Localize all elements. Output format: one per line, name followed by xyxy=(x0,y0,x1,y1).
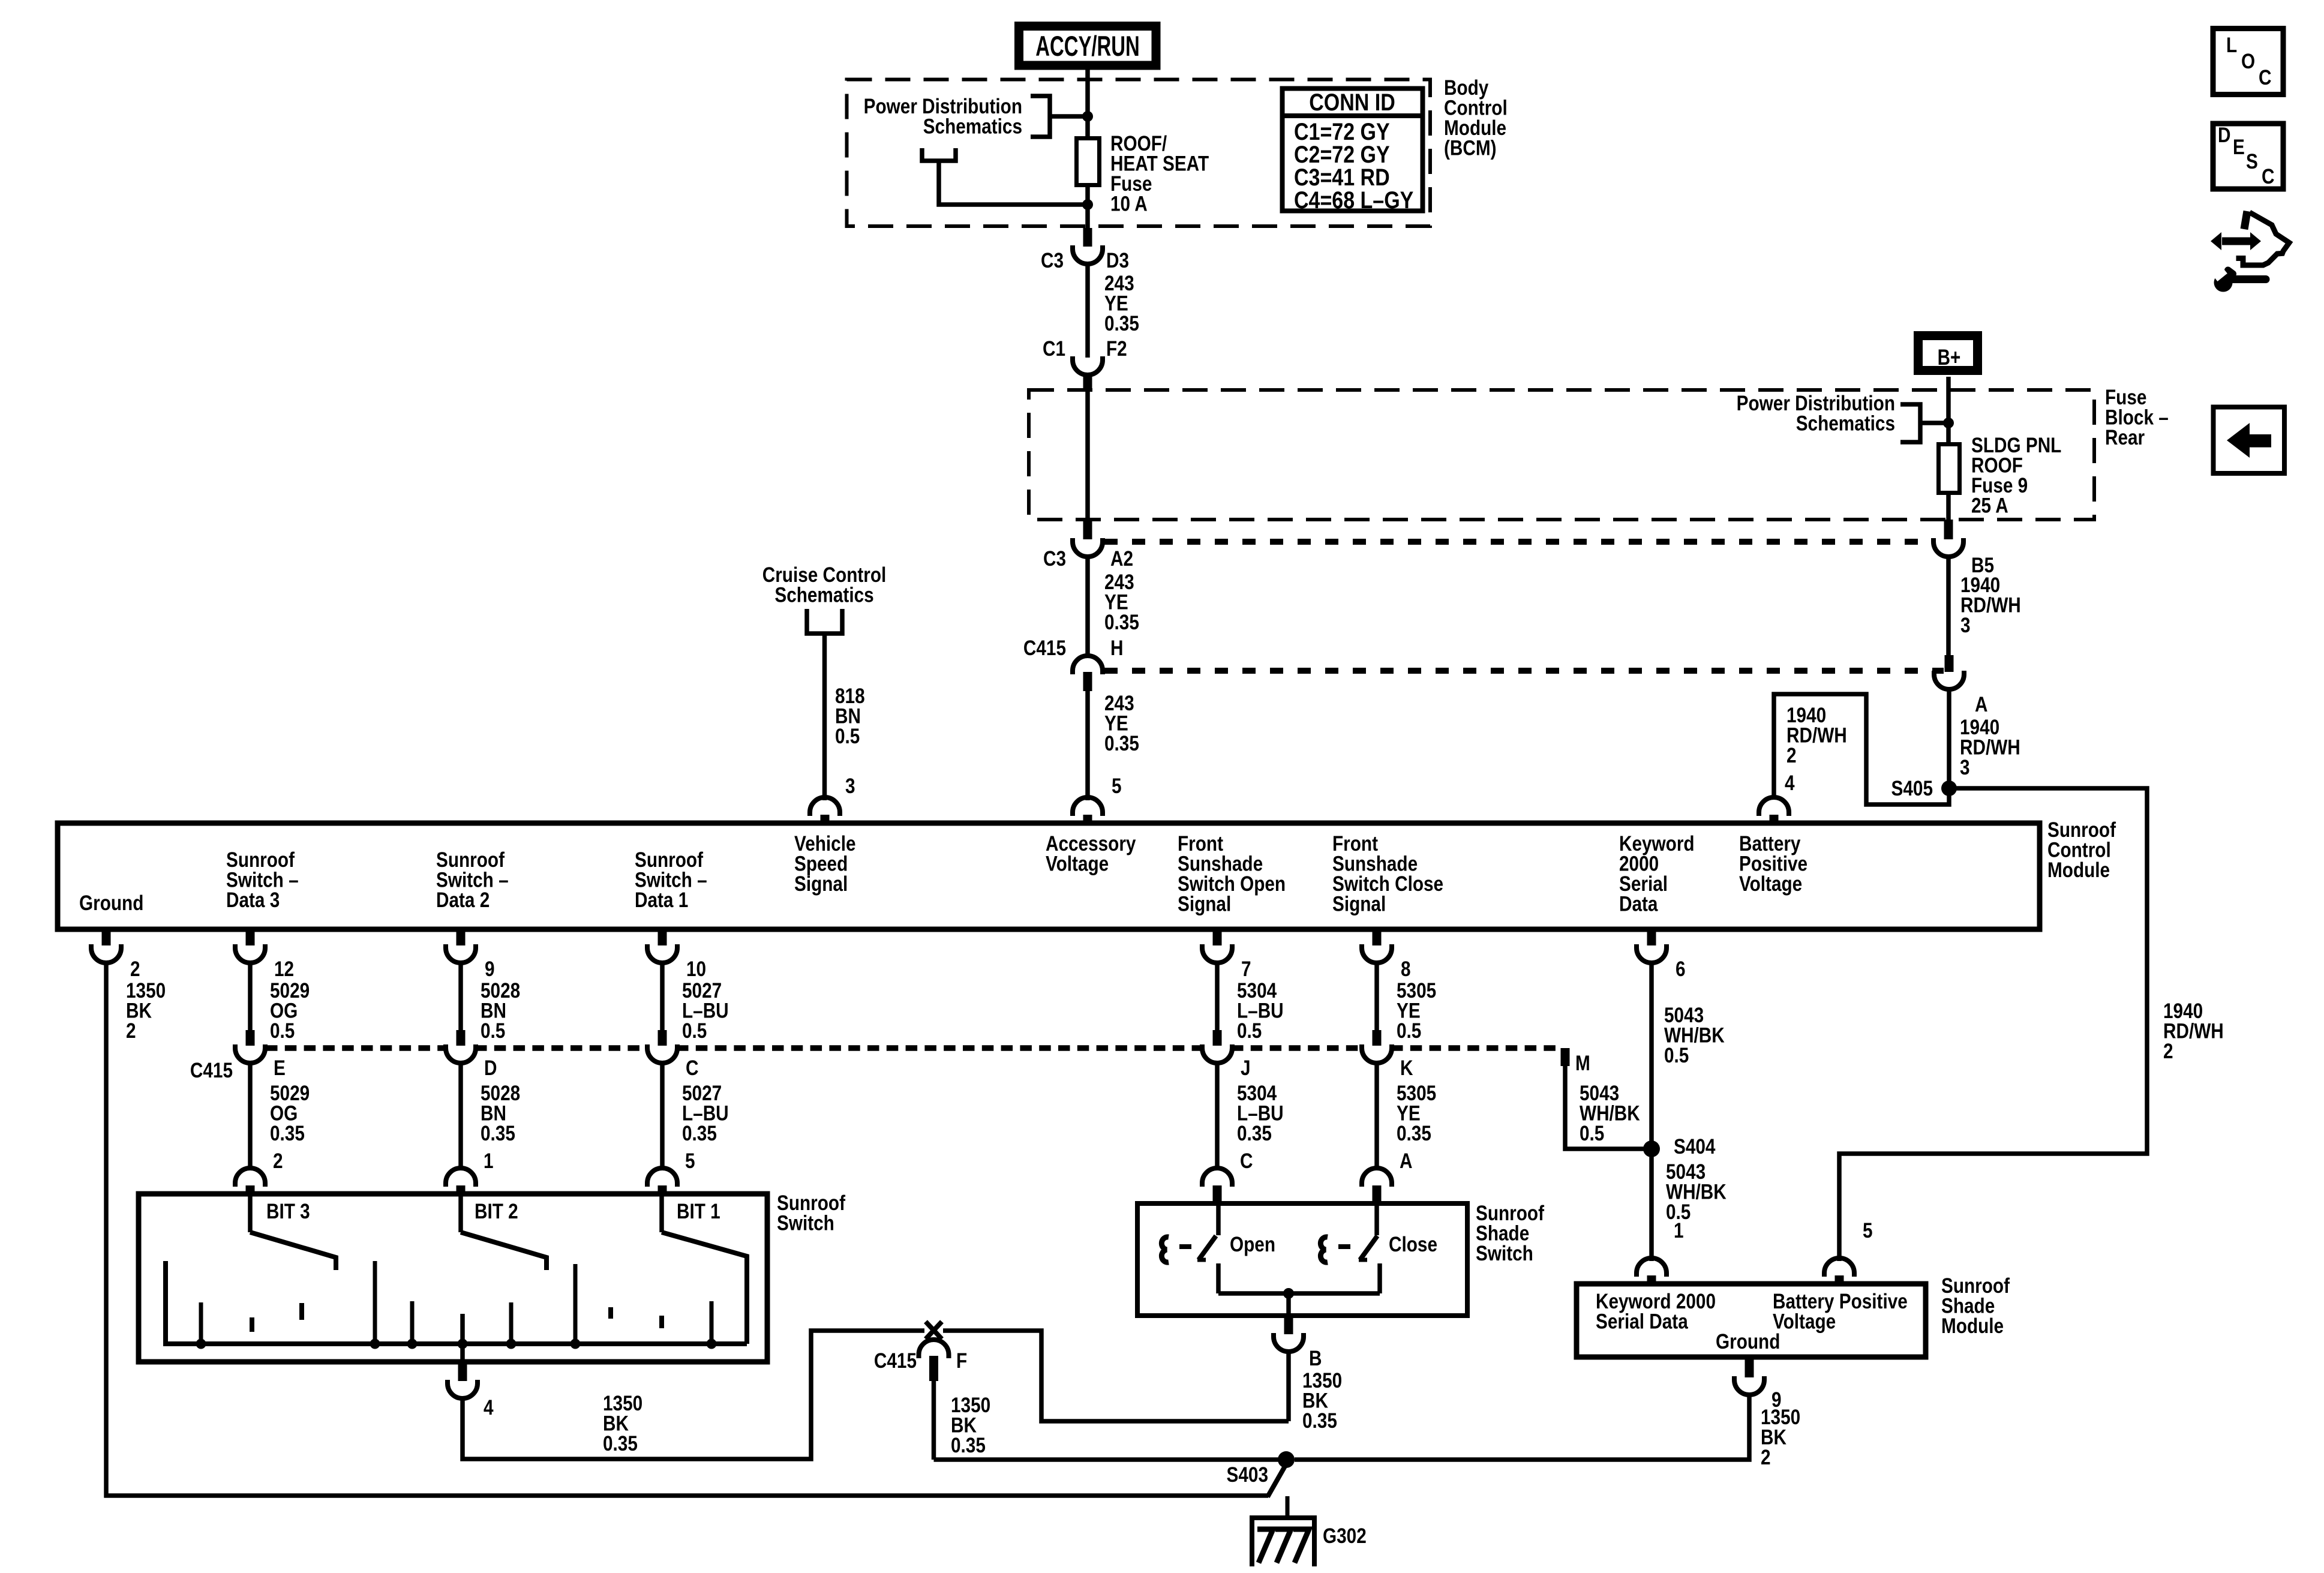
svg-text:D3: D3 xyxy=(1106,249,1129,272)
connector C415 pin C xyxy=(647,1044,677,1063)
svg-text:10 A: 10 A xyxy=(1110,192,1148,215)
svg-text:ACCY/RUN: ACCY/RUN xyxy=(1035,30,1140,62)
svg-text:S405: S405 xyxy=(1891,777,1933,800)
svg-text:S404: S404 xyxy=(1674,1135,1715,1158)
switch blade BIT 2 xyxy=(461,1232,547,1270)
power feed ACCY/RUN box xyxy=(1019,26,1157,66)
svg-text:A: A xyxy=(1400,1149,1412,1173)
connector C415 pin E stub xyxy=(246,1030,255,1046)
connector A xyxy=(1934,671,1964,689)
switch contact tick xyxy=(509,1302,514,1344)
svg-text:BIT 2: BIT 2 xyxy=(475,1200,518,1223)
svg-text:J: J xyxy=(1241,1056,1251,1080)
pin 2 stub (ground) xyxy=(102,930,111,945)
svg-text:0.35: 0.35 xyxy=(682,1122,717,1145)
pin 3 stub xyxy=(821,815,830,825)
svg-text:S403: S403 xyxy=(1227,1463,1268,1487)
wire to shade switch xyxy=(1374,1062,1379,1169)
connector pin 7 (open signal) xyxy=(1202,944,1232,963)
wire bracket to below fuse xyxy=(939,161,1088,205)
svg-text:Voltage: Voltage xyxy=(1739,872,1802,896)
connector pin 8 (close signal) xyxy=(1362,944,1392,963)
module box BCM (dashed) xyxy=(847,80,1431,227)
contact junction xyxy=(370,1339,380,1349)
svg-text:8: 8 xyxy=(1401,957,1411,981)
wire bit3 pivot xyxy=(248,1196,253,1232)
svg-text:Data 1: Data 1 xyxy=(635,888,688,912)
splice S403 xyxy=(1278,1451,1295,1468)
svg-text:5: 5 xyxy=(685,1149,695,1173)
wire B+ to fuse 9 xyxy=(1946,377,1951,520)
connector into sunroof switch xyxy=(647,1168,677,1187)
wire 818 to pin 3 xyxy=(822,634,827,800)
svg-text:G302: G302 xyxy=(1323,1524,1367,1548)
open contact xyxy=(1216,1263,1221,1293)
module box sunroof shade module xyxy=(1577,1284,1926,1357)
wire S403 branch diagonal xyxy=(1268,1462,1287,1497)
svg-text:5: 5 xyxy=(1863,1219,1873,1242)
stub into sunroof switch xyxy=(658,1185,667,1196)
connector pin 3 xyxy=(810,797,840,816)
wire to sunroof switch xyxy=(660,1062,665,1169)
connector C415 pin C stub xyxy=(658,1030,667,1046)
svg-text:A2: A2 xyxy=(1110,547,1133,571)
wire to C415 row xyxy=(1215,963,1220,1030)
wire A to S405 xyxy=(1947,690,1951,788)
pin 7 stub (open signal) xyxy=(1213,930,1222,945)
svg-text:0.35: 0.35 xyxy=(951,1434,986,1457)
connector shade module pin 5 xyxy=(1824,1258,1854,1277)
svg-text:BIT 3: BIT 3 xyxy=(266,1200,310,1223)
connector into sunroof switch xyxy=(235,1168,265,1187)
svg-text:6: 6 xyxy=(1676,957,1686,981)
wire M to S404 xyxy=(1565,1066,1652,1149)
svg-text:0.5: 0.5 xyxy=(682,1019,707,1043)
svg-text:4: 4 xyxy=(1785,772,1795,795)
svg-text:0.35: 0.35 xyxy=(1104,732,1139,755)
svg-text:C415: C415 xyxy=(874,1349,917,1373)
svg-text:4: 4 xyxy=(484,1396,494,1419)
svg-text:Rear: Rear xyxy=(2105,426,2145,449)
wire F to S403 xyxy=(932,1381,936,1460)
svg-text:2: 2 xyxy=(126,1019,136,1043)
contact junction xyxy=(196,1339,206,1349)
wire A2 to H xyxy=(1085,556,1090,658)
svg-text:C4=68 L–GY: C4=68 L–GY xyxy=(1294,186,1414,213)
wire ACCY/RUN to fuse xyxy=(1085,68,1090,228)
contact junction xyxy=(707,1339,717,1349)
pin 5 stub xyxy=(1083,815,1092,825)
pin 10 stub (data 1) xyxy=(658,930,667,945)
svg-text:0.35: 0.35 xyxy=(1104,611,1139,634)
stub into shade switch xyxy=(1213,1185,1222,1206)
wire to C415 row xyxy=(1374,963,1379,1030)
connector pin B xyxy=(1274,1333,1304,1352)
close contact xyxy=(1377,1263,1382,1293)
wire D3 to F2 xyxy=(1085,264,1090,358)
svg-text:12: 12 xyxy=(274,957,294,981)
svg-text:Module: Module xyxy=(2047,858,2110,882)
svg-text:Schematics: Schematics xyxy=(923,115,1022,138)
svg-text:E: E xyxy=(2233,136,2245,159)
bracket to power distribution (fuse block) xyxy=(1900,404,1920,442)
svg-text:K: K xyxy=(1400,1056,1413,1080)
wire S405 to pin 4 xyxy=(1774,694,1949,804)
connector C415 pin H xyxy=(1073,656,1103,674)
svg-text:2: 2 xyxy=(130,957,140,981)
connector shade module pin 1 xyxy=(1637,1258,1667,1277)
connector C1 pin F2 xyxy=(1073,356,1103,375)
svg-text:10: 10 xyxy=(686,957,706,981)
wire open pivot xyxy=(1216,1206,1221,1235)
connector C3 pin A2 stub xyxy=(1083,520,1092,539)
wire bit2 pivot xyxy=(458,1196,463,1232)
svg-text:Signal: Signal xyxy=(794,872,848,896)
dash close xyxy=(1338,1244,1350,1249)
pin 4 stub (sunroof switch) xyxy=(458,1364,467,1381)
wire shade common out xyxy=(1286,1293,1291,1316)
connector F crossing stroke 1 xyxy=(926,1322,942,1339)
svg-text:B+: B+ xyxy=(1938,346,1961,370)
junction shade common xyxy=(1283,1288,1294,1299)
connector C1 pin F2 stub xyxy=(1083,373,1092,390)
pin 8 stub (close signal) xyxy=(1373,930,1382,945)
wire 1350 pin4 to C415 F xyxy=(463,1331,924,1459)
switch contact tick xyxy=(410,1301,415,1344)
detent tick xyxy=(250,1317,254,1332)
svg-text:Open: Open xyxy=(1230,1233,1275,1256)
connector C415 pin E xyxy=(235,1044,265,1063)
wire to C415 row xyxy=(660,963,665,1030)
connector C415 pin J stub xyxy=(1213,1030,1222,1046)
fuse ROOF/HEAT SEAT 10A xyxy=(1077,139,1100,185)
connector pin 4 (sunroof switch) xyxy=(448,1380,478,1398)
svg-text:H: H xyxy=(1110,637,1123,660)
connector into sunroof switch xyxy=(446,1168,476,1187)
svg-text:C3: C3 xyxy=(1041,249,1064,272)
svg-text:3: 3 xyxy=(1960,614,1971,637)
wire to sunroof switch xyxy=(248,1062,253,1169)
wire F to shade switch B xyxy=(943,1331,1289,1421)
svg-text:CONN ID: CONN ID xyxy=(1309,88,1395,115)
contact junction xyxy=(506,1339,517,1349)
svg-text:Data: Data xyxy=(1619,892,1658,915)
connector C3 pin D3 xyxy=(1073,245,1103,264)
detent tick xyxy=(659,1316,664,1328)
svg-text:D: D xyxy=(2218,124,2230,147)
connector C415 pin F xyxy=(919,1340,949,1358)
wire to sunroof switch xyxy=(458,1062,463,1169)
connector into shade switch xyxy=(1202,1168,1232,1187)
switch blade close xyxy=(1360,1236,1377,1260)
svg-text:0.35: 0.35 xyxy=(1237,1122,1272,1145)
shade switch common bar xyxy=(1218,1291,1380,1296)
connector pin 6 xyxy=(1637,944,1667,963)
svg-text:Schematics: Schematics xyxy=(1796,412,1895,435)
svg-text:C3: C3 xyxy=(1043,547,1066,571)
blade foot close xyxy=(1359,1258,1367,1262)
wire to G302 xyxy=(1286,1496,1290,1517)
svg-text:E: E xyxy=(274,1056,286,1080)
connector C415 pin D stub xyxy=(457,1030,466,1046)
CONN ID table xyxy=(1283,89,1423,211)
wire B down xyxy=(1286,1351,1291,1421)
splice S405 xyxy=(1941,781,1957,796)
icon back-arrow box xyxy=(2214,407,2285,474)
connector C415 pin H stub xyxy=(1083,672,1092,691)
svg-text:(BCM): (BCM) xyxy=(1444,136,1497,160)
connector F stub xyxy=(929,1356,938,1381)
detent hook close xyxy=(1320,1237,1328,1262)
wire S405 to shade module pin 5 xyxy=(1839,788,2147,1261)
svg-text:0.35: 0.35 xyxy=(1302,1409,1337,1433)
wire F junction run xyxy=(934,1457,1287,1462)
switch contact tick xyxy=(710,1301,714,1344)
svg-text:Schematics: Schematics xyxy=(774,583,873,607)
svg-text:Data 3: Data 3 xyxy=(226,888,280,912)
svg-text:C: C xyxy=(1240,1149,1253,1173)
pin 9 stub xyxy=(1745,1359,1754,1377)
switch box sunroof switch xyxy=(139,1194,767,1362)
switch box sunroof shade switch xyxy=(1137,1203,1467,1316)
svg-text:7: 7 xyxy=(1241,957,1251,981)
stub into shade switch xyxy=(1373,1185,1382,1206)
svg-text:0.5: 0.5 xyxy=(1664,1044,1689,1067)
wire to C415 row xyxy=(248,963,253,1030)
connector C415 pin K xyxy=(1362,1044,1392,1063)
wire F2 through fuse block xyxy=(1085,390,1090,520)
stub into sunroof switch xyxy=(246,1185,255,1196)
svg-text:0.35: 0.35 xyxy=(481,1122,515,1145)
dotted connector line C3-B5 xyxy=(1104,539,1933,545)
connector line C415 (dashed) xyxy=(266,1045,446,1051)
connector pin 9 (data 2) xyxy=(446,944,476,963)
svg-text:Data 2: Data 2 xyxy=(436,888,490,912)
pin 12 stub (data 3) xyxy=(246,930,255,945)
icon LOC box xyxy=(2213,29,2283,95)
pin 1 stub xyxy=(1647,1275,1656,1286)
connector C3 pin A2 xyxy=(1073,538,1103,557)
svg-text:F: F xyxy=(956,1349,967,1373)
blade foot open xyxy=(1197,1258,1206,1262)
icon vehicle/diagnostic with double arrow and wrench xyxy=(2222,211,2289,265)
connector pin 4 xyxy=(1759,797,1789,816)
svg-text:0.35: 0.35 xyxy=(1104,312,1139,335)
connector C415 pin M stub xyxy=(1561,1048,1570,1066)
svg-text:2: 2 xyxy=(2163,1040,2173,1063)
fuse SLDG PNL ROOF Fuse 9 25A xyxy=(1939,445,1960,493)
switch blade open xyxy=(1199,1236,1216,1260)
svg-text:0.35: 0.35 xyxy=(270,1122,305,1145)
svg-text:C1: C1 xyxy=(1043,337,1065,361)
connector B5 stub xyxy=(1944,520,1953,539)
connector B5 xyxy=(1933,538,1963,557)
svg-text:Switch: Switch xyxy=(777,1211,834,1235)
pin 6 stub (serial data) xyxy=(1647,930,1656,945)
connector pin 10 (data 1) xyxy=(647,944,677,963)
svg-text:2: 2 xyxy=(1786,744,1797,767)
svg-text:C: C xyxy=(2259,66,2271,89)
bracket cruise control xyxy=(807,609,842,634)
connector pin 2 (ground) xyxy=(91,944,121,963)
junction below B+ xyxy=(1943,418,1954,428)
detent hook open xyxy=(1161,1237,1169,1262)
svg-text:M: M xyxy=(1575,1052,1590,1075)
svg-text:Close: Close xyxy=(1389,1233,1437,1256)
bracket lower (power distribution) xyxy=(922,148,956,161)
svg-text:Module: Module xyxy=(1941,1314,2004,1338)
svg-text:0.5: 0.5 xyxy=(1580,1122,1604,1145)
svg-text:1: 1 xyxy=(1674,1219,1684,1242)
wire 5043 pin6 to pin1 xyxy=(1649,963,1654,1261)
battery feed B+ box xyxy=(1918,336,1978,371)
connector C415 pin K stub xyxy=(1373,1030,1382,1046)
svg-text:3: 3 xyxy=(1960,756,1970,779)
connector into shade switch xyxy=(1362,1168,1392,1187)
wire bracket to fuse node xyxy=(1050,114,1088,119)
svg-text:C415: C415 xyxy=(190,1059,233,1082)
switch blade BIT 3 xyxy=(250,1232,336,1270)
bracket to power distribution (BCM) xyxy=(1031,96,1050,137)
wire ground bottom run xyxy=(104,1493,1269,1498)
svg-text:D: D xyxy=(484,1056,497,1080)
svg-text:O: O xyxy=(2241,50,2255,73)
svg-text:Signal: Signal xyxy=(1332,892,1386,915)
junction common bar xyxy=(458,1339,468,1349)
wire to C415 row xyxy=(458,963,463,1030)
switch contact tick xyxy=(199,1302,203,1344)
pin B stub xyxy=(1284,1317,1293,1334)
dotted connector line C415-A xyxy=(1104,668,1944,674)
detent tick xyxy=(608,1307,613,1319)
connector pin 12 (data 3) xyxy=(235,944,265,963)
connector pin 5 xyxy=(1073,797,1103,816)
svg-text:Ground: Ground xyxy=(79,891,143,915)
icon DESC box xyxy=(2213,124,2283,189)
svg-text:Voltage: Voltage xyxy=(1773,1310,1836,1333)
switch contact tick xyxy=(373,1261,377,1344)
connector C415 pin D xyxy=(446,1044,476,1063)
svg-text:25 A: 25 A xyxy=(1971,494,2008,517)
svg-text:0.5: 0.5 xyxy=(1397,1019,1421,1043)
junction below fuse xyxy=(1082,199,1093,210)
svg-text:F2: F2 xyxy=(1106,337,1127,361)
wire bracket to B+ node xyxy=(1920,421,1948,425)
dash open xyxy=(1179,1244,1191,1249)
svg-text:A: A xyxy=(1975,693,1987,716)
svg-text:0.5: 0.5 xyxy=(481,1019,505,1043)
wire switch common out xyxy=(460,1314,465,1362)
connector C3 pin D3 stub xyxy=(1083,228,1092,247)
svg-text:BIT 1: BIT 1 xyxy=(677,1200,720,1223)
svg-text:5: 5 xyxy=(1112,775,1122,798)
splice S404 xyxy=(1643,1140,1660,1157)
svg-text:0.35: 0.35 xyxy=(603,1432,638,1455)
detent tick xyxy=(299,1303,304,1320)
svg-text:Switch: Switch xyxy=(1476,1242,1533,1265)
wire bit1 pivot xyxy=(659,1196,664,1232)
wire pin 9 to S403 xyxy=(1295,1394,1749,1460)
junction above fuse xyxy=(1082,111,1093,122)
contact junction xyxy=(571,1339,581,1349)
wire close pivot xyxy=(1374,1206,1379,1235)
svg-text:9: 9 xyxy=(485,957,495,981)
stub into sunroof switch xyxy=(457,1185,466,1196)
switch blade BIT 1 xyxy=(662,1232,747,1344)
icon wrench xyxy=(2228,275,2266,283)
pin 9 stub (data 2) xyxy=(457,930,466,945)
svg-text:0.5: 0.5 xyxy=(270,1019,295,1043)
svg-text:S: S xyxy=(2246,150,2258,173)
svg-text:0.35: 0.35 xyxy=(1397,1122,1431,1145)
pin 4 stub xyxy=(1770,815,1779,825)
connector pin 9 xyxy=(1734,1376,1764,1395)
pin 5 stub xyxy=(1835,1275,1844,1286)
svg-text:0.5: 0.5 xyxy=(1237,1019,1262,1043)
svg-text:C415: C415 xyxy=(1023,637,1066,660)
wire B5 to A xyxy=(1946,556,1951,655)
module box sunroof control module xyxy=(58,823,2040,929)
wire to shade switch xyxy=(1215,1062,1220,1169)
ground G302 symbol xyxy=(1252,1518,1314,1566)
svg-text:2: 2 xyxy=(273,1149,283,1173)
switch contact tick xyxy=(574,1264,578,1344)
wire ground 1350 BK xyxy=(104,963,109,1498)
svg-text:C: C xyxy=(686,1056,698,1080)
svg-text:Ground: Ground xyxy=(1716,1330,1780,1353)
fuse block rear (dashed box) xyxy=(1029,390,2094,520)
switch common bar xyxy=(166,1261,747,1344)
svg-text:C: C xyxy=(2262,165,2274,188)
svg-text:2: 2 xyxy=(1761,1446,1771,1469)
connector C415 pin J xyxy=(1202,1044,1232,1063)
connector F crossing stroke 2 xyxy=(926,1322,942,1339)
svg-text:1: 1 xyxy=(484,1149,494,1173)
wire H to pin 5 xyxy=(1085,691,1090,800)
svg-text:Signal: Signal xyxy=(1178,892,1231,915)
svg-text:L: L xyxy=(2226,34,2237,57)
connector A stub xyxy=(1945,655,1954,672)
svg-text:B: B xyxy=(1309,1347,1322,1370)
svg-text:Voltage: Voltage xyxy=(1046,852,1109,875)
svg-text:3: 3 xyxy=(845,775,855,798)
contact junction xyxy=(407,1339,418,1349)
svg-text:Serial Data: Serial Data xyxy=(1596,1310,1689,1333)
svg-text:0.5: 0.5 xyxy=(835,725,860,748)
